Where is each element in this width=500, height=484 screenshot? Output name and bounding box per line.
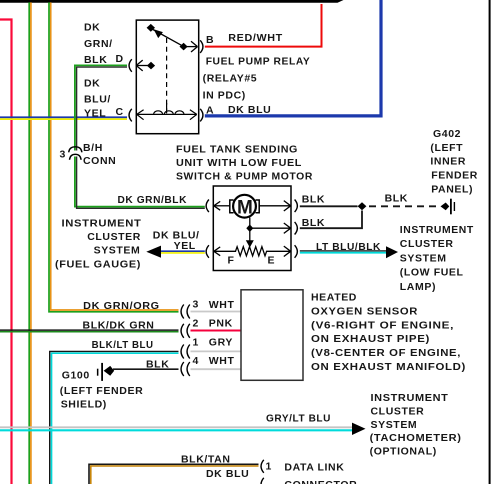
- oxygen sensor connector arcs pin 1: [181, 345, 190, 359]
- svg-text:SYSTEM: SYSTEM: [400, 252, 447, 264]
- svg-text:GRY/LT BLU: GRY/LT BLU: [266, 413, 331, 425]
- svg-text:SWITCH & PUMP MOTOR: SWITCH & PUMP MOTOR: [176, 171, 313, 183]
- label DK GRN/BLK sending unit: [118, 194, 188, 206]
- relay terminal arc C: [129, 109, 132, 122]
- pin 3 number and WHT wire: [191, 298, 242, 311]
- svg-text:DK GRN/ORG: DK GRN/ORG: [83, 300, 160, 312]
- svg-text:(V8-CENTER OF ENGINE,: (V8-CENTER OF ENGINE,: [311, 347, 461, 359]
- wire red left vertical: [0, 20, 12, 484]
- svg-text:2: 2: [193, 317, 199, 329]
- right page border: [489, 0, 491, 484]
- label BLK 4: [146, 358, 169, 370]
- label BLK 1: [302, 193, 325, 205]
- svg-text:FUEL TANK SENDING: FUEL TANK SENDING: [176, 144, 298, 156]
- svg-text:SYSTEM: SYSTEM: [94, 244, 141, 256]
- svg-text:BLK: BLK: [385, 192, 408, 204]
- relay box U relay: [136, 20, 198, 134]
- relay dashed actuator line: [166, 38, 168, 114]
- sending unit terminal arc left top: [206, 200, 209, 213]
- svg-text:CLUSTER: CLUSTER: [371, 406, 425, 418]
- wire GRY/LT BLU: [0, 427, 352, 430]
- wire BLK sending unit second: [300, 211, 362, 229]
- label INSTRUMENT CLUSTER SYSTEM (LOW FUEL LAMP): [400, 224, 474, 293]
- arrow to fuel gauge: [146, 246, 161, 258]
- svg-text:CONN: CONN: [83, 155, 116, 167]
- svg-text:DK: DK: [84, 78, 100, 90]
- svg-text:DK BLU: DK BLU: [206, 468, 249, 480]
- svg-text:BLK: BLK: [302, 193, 325, 205]
- wire LT BLU/BLK: [300, 251, 386, 253]
- svg-text:SYSTEM: SYSTEM: [371, 419, 418, 431]
- sending unit terminal arc right 2: [295, 222, 298, 235]
- wire DK GRN/ORG pair 2 to oxygen sensor pin 3: [49, 2, 179, 311]
- label pin C: [116, 106, 124, 118]
- svg-text:INNER: INNER: [430, 156, 466, 168]
- svg-text:WHT: WHT: [209, 355, 235, 367]
- label pin B: [206, 34, 214, 46]
- wire green/orange pair 1 vertical: [29, 2, 31, 484]
- svg-text:HEATED: HEATED: [311, 292, 357, 304]
- label DK BLU: [228, 104, 271, 116]
- fuel tank sending unit box: [213, 186, 291, 271]
- svg-text:(V6-RIGHT OF ENGINE,: (V6-RIGHT OF ENGINE,: [311, 319, 454, 331]
- oxygen sensor connector arcs pin 2: [181, 324, 190, 338]
- label F: [228, 254, 235, 266]
- svg-text:PNK: PNK: [209, 318, 233, 330]
- data link connector arc pin 1: [261, 460, 264, 473]
- svg-text:DK BLU: DK BLU: [228, 104, 271, 116]
- label DK GRN/BLK relay: [84, 22, 113, 67]
- relay terminal arc A: [200, 109, 203, 122]
- wire DK BLU/YEL to fuel gauge: [161, 251, 205, 253]
- label pin A: [206, 105, 214, 117]
- svg-text:F: F: [228, 254, 235, 266]
- label RED/WHT: [228, 32, 282, 44]
- label LT BLU/BLK: [316, 241, 381, 253]
- svg-text:YEL: YEL: [84, 108, 106, 120]
- svg-text:(FUEL GAUGE): (FUEL GAUGE): [55, 258, 141, 270]
- svg-text:ON EXHAUST PIPE): ON EXHAUST PIPE): [311, 333, 430, 345]
- label 3 B/H CONN: [60, 142, 117, 167]
- svg-text:B/H: B/H: [83, 142, 103, 154]
- svg-text:BLU/: BLU/: [84, 94, 111, 106]
- data link connector arc pin 2: [261, 478, 264, 484]
- relay pin D arm: [136, 60, 155, 71]
- svg-text:3: 3: [193, 298, 199, 310]
- svg-text:G100: G100: [62, 370, 90, 382]
- wire BLK from G100 to pin 4: [113, 368, 179, 370]
- wire DK GRN/BLK from relay pin D to sending unit: [75, 65, 205, 208]
- svg-text:CLUSTER: CLUSTER: [400, 238, 454, 250]
- wire BLK/LT BLU to pin 1: [50, 351, 179, 484]
- svg-text:1: 1: [266, 460, 272, 472]
- svg-text:INSTRUMENT: INSTRUMENT: [371, 392, 449, 404]
- sending unit terminal arc right 1: [295, 200, 298, 213]
- wire DK BLU/YEL to relay pin C: [0, 117, 127, 119]
- label BLK/TAN: [181, 453, 231, 465]
- svg-text:(OPTIONAL): (OPTIONAL): [370, 445, 437, 457]
- label pin D: [116, 53, 124, 65]
- label G402 (LEFT INNER FENDER PANEL): [430, 128, 478, 196]
- svg-text:(LOW FUEL: (LOW FUEL: [400, 267, 464, 279]
- svg-text:C: C: [116, 106, 124, 118]
- svg-text:FUEL PUMP RELAY: FUEL PUMP RELAY: [206, 56, 311, 68]
- arrow to tachometer: [352, 423, 366, 435]
- resistor fuel level sender: [214, 246, 291, 256]
- sending unit terminal arc right 3: [295, 245, 298, 258]
- relay terminal arc D: [129, 59, 132, 72]
- svg-text:ON EXHAUST MANIFOLD): ON EXHAUST MANIFOLD): [311, 361, 466, 373]
- svg-text:BLK: BLK: [84, 54, 107, 66]
- label G100 (LEFT FENDER SHIELD): [60, 370, 144, 411]
- in-line connector B/H CONN: [69, 147, 82, 160]
- svg-text:BLK/LT BLU: BLK/LT BLU: [92, 339, 154, 351]
- svg-text:D: D: [116, 53, 124, 65]
- wire BLK sending unit top: [300, 205, 358, 207]
- label BLK 2: [302, 217, 325, 229]
- svg-text:INSTRUMENT: INSTRUMENT: [62, 218, 142, 230]
- arrow to low fuel lamp: [386, 246, 398, 258]
- label DK BLU data link: [206, 468, 249, 480]
- label BLK 3: [385, 192, 408, 204]
- svg-text:3: 3: [60, 149, 66, 161]
- svg-text:OXYGEN SENSOR: OXYGEN SENSOR: [311, 305, 418, 317]
- svg-text:4: 4: [193, 355, 199, 367]
- svg-text:UNIT WITH LOW FUEL: UNIT WITH LOW FUEL: [176, 157, 302, 169]
- svg-text:DK: DK: [84, 22, 100, 34]
- svg-text:GRY: GRY: [209, 337, 233, 349]
- wire BLK/DK GRN to pin 2: [0, 330, 179, 332]
- ground G100: [97, 363, 114, 381]
- svg-text:(RELAY#5: (RELAY#5: [203, 73, 258, 85]
- svg-text:LAMP): LAMP): [400, 281, 436, 293]
- heated oxygen sensor box: [241, 290, 303, 381]
- relay terminal arc B: [200, 40, 203, 53]
- sending unit terminal arc left bottom: [206, 245, 209, 258]
- junction node and wiper feed: [246, 218, 291, 248]
- label BLK/DK GRN: [83, 319, 155, 331]
- svg-text:A: A: [206, 105, 214, 117]
- pin 4 number and WHT wire: [191, 355, 242, 369]
- svg-text:DK GRN/BLK: DK GRN/BLK: [118, 194, 188, 206]
- label HEATED OXYGEN SENSOR: [311, 292, 466, 374]
- svg-text:G402: G402: [433, 128, 461, 140]
- svg-text:FENDER: FENDER: [431, 170, 478, 182]
- pin 1 number and GRY wire: [191, 336, 242, 351]
- ground G402: [441, 199, 456, 215]
- label BLK/LT BLU: [92, 339, 154, 351]
- svg-text:B: B: [206, 34, 214, 46]
- label DK BLU/YEL relay: [84, 78, 111, 120]
- label CONNECTOR: [284, 479, 357, 484]
- label pin 1 DATA LINK: [266, 460, 345, 473]
- svg-text:SHIELD): SHIELD): [61, 399, 107, 411]
- svg-text:INSTRUMENT: INSTRUMENT: [400, 224, 474, 236]
- wire BLK dashed to G402: [369, 205, 440, 207]
- junction diamond node: [358, 202, 367, 210]
- wire DK BLU from relay pin A: [205, 0, 381, 116]
- svg-text:RED/WHT: RED/WHT: [228, 32, 282, 44]
- label GRY/LT BLU: [266, 413, 331, 425]
- svg-text:GRN/: GRN/: [84, 38, 113, 50]
- svg-text:(LEFT FENDER: (LEFT FENDER: [60, 385, 144, 397]
- svg-text:PANEL): PANEL): [431, 184, 473, 196]
- svg-text:1: 1: [193, 336, 199, 348]
- label FUEL TANK SENDING UNIT WITH LOW FUEL SWITCH & PUMP MOTOR: [176, 144, 313, 183]
- svg-text:IN PDC): IN PDC): [203, 90, 246, 102]
- wire BLK/TAN to data link connector: [89, 464, 259, 484]
- oxygen sensor connector arcs pin 3: [181, 305, 190, 319]
- label DK BLU/ YEL: [153, 229, 200, 251]
- label INSTRUMENT CLUSTER SYSTEM (TACHOMETER) (OPTIONAL): [370, 392, 462, 457]
- svg-text:CLUSTER: CLUSTER: [87, 231, 141, 243]
- svg-text:WHT: WHT: [209, 299, 235, 311]
- svg-text:(TACHOMETER): (TACHOMETER): [370, 432, 462, 444]
- wire RED/WHT from relay pin B: [205, 4, 322, 47]
- svg-text:YEL: YEL: [174, 240, 196, 252]
- oxygen sensor connector arcs pin 4: [181, 362, 190, 376]
- svg-text:(LEFT: (LEFT: [430, 142, 463, 154]
- label E: [268, 255, 276, 267]
- top border bus bar: [0, 0, 344, 3]
- svg-text:DATA LINK: DATA LINK: [284, 461, 344, 473]
- label FUEL PUMP RELAY (RELAY#5 IN PDC): [203, 56, 311, 102]
- pin 2 number and PNK wire: [191, 317, 242, 330]
- relay coil: [137, 103, 197, 120]
- label DK GRN/ORG: [83, 300, 160, 312]
- label INSTRUMENT CLUSTER SYSTEM (FUEL GAUGE): [55, 218, 142, 271]
- svg-text:E: E: [268, 255, 276, 267]
- svg-text:CONNECTOR: CONNECTOR: [284, 479, 357, 484]
- svg-text:BLK: BLK: [302, 217, 325, 229]
- motor M pump: [214, 195, 291, 219]
- relay contact arm: [147, 24, 198, 52]
- svg-text:M: M: [237, 197, 253, 218]
